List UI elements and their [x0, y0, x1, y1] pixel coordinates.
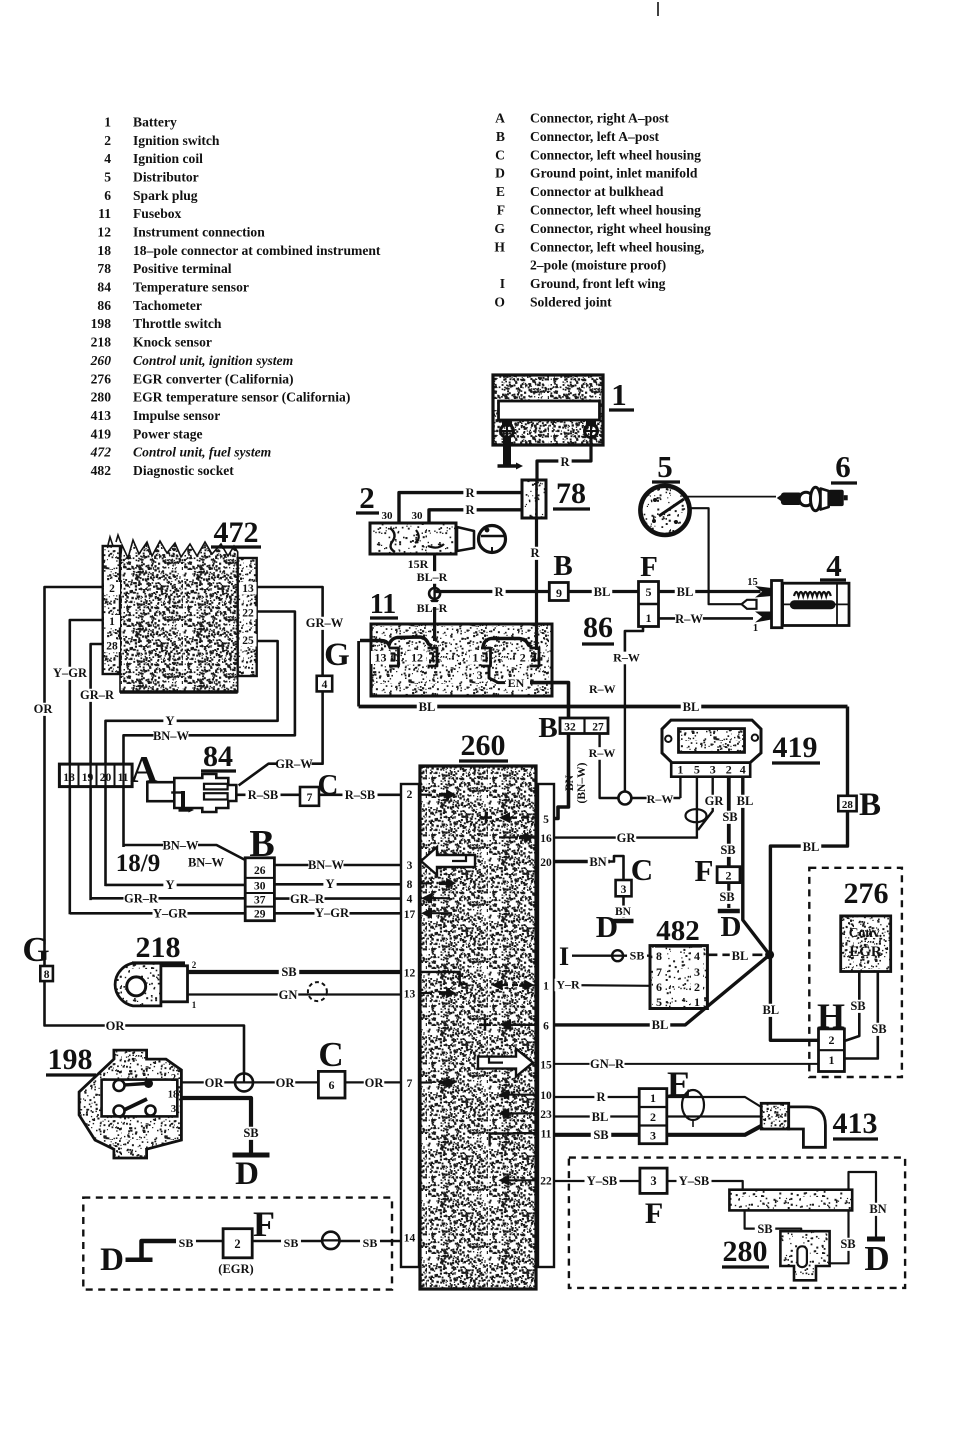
wire EN to connector B32: [530, 683, 569, 718]
label 15R: [405, 558, 432, 571]
svg-text:218: 218: [91, 335, 112, 350]
svg-text:GR: GR: [617, 831, 637, 845]
svg-text:3: 3: [694, 965, 700, 979]
wire BL to connector B28: [846, 707, 849, 796]
svg-text:78: 78: [97, 261, 111, 276]
svg-text:D: D: [721, 911, 742, 943]
260 double arrow pin 1: [492, 980, 503, 991]
svg-text:F: F: [695, 853, 714, 888]
svg-text:B: B: [859, 787, 881, 823]
wire BN below C3: [622, 896, 625, 918]
wire distributor to coil wire: [689, 508, 709, 589]
svg-text:BL: BL: [677, 585, 694, 599]
260 plus glyph pin 6: [479, 1024, 491, 1027]
svg-text:Y–SB: Y–SB: [679, 1174, 710, 1188]
svg-text:7: 7: [307, 792, 313, 804]
label SB: [241, 1127, 262, 1140]
svg-text:I: I: [559, 942, 569, 971]
label BL: [735, 795, 756, 808]
svg-text:D: D: [100, 1242, 124, 1278]
svg-text:SB: SB: [281, 965, 296, 979]
wire GR-W from 472 pin 13 to connector G4: [257, 587, 323, 676]
472 pin 13: [240, 582, 257, 595]
260 arrowhead pin 23: [498, 1108, 509, 1119]
260 big arrow pin 3: [421, 847, 475, 875]
wire R battery to positive terminal 78: [537, 438, 591, 480]
wire SB 260 pin 11 to E3: [554, 1133, 639, 1137]
svg-text:12: 12: [411, 651, 423, 665]
diagnostic socket 482: [650, 946, 707, 1009]
260 arrow glyph pin 16: [499, 836, 518, 838]
wire Y-SB 260 pin 22 to F3: [554, 1180, 640, 1182]
wire BL main: [359, 705, 848, 709]
wire GN 218 to 260 pin 13: [188, 993, 402, 995]
svg-text:BL–R: BL–R: [417, 601, 448, 615]
svg-text:1: 1: [677, 763, 683, 777]
svg-text:GN: GN: [279, 988, 298, 1002]
label BL: [592, 586, 613, 599]
svg-text:78: 78: [556, 477, 586, 510]
svg-text:SB: SB: [243, 1126, 258, 1140]
connector F 2 EGR: [223, 1229, 252, 1258]
svg-text:9: 9: [556, 586, 562, 600]
wire SB 276 right: [844, 972, 877, 1059]
svg-text:D: D: [596, 909, 618, 944]
472 left pin strip: [103, 546, 120, 674]
label GR-W: [307, 617, 342, 630]
wire OR 198 pin 2: [181, 1081, 235, 1083]
label SB: [281, 1237, 301, 1250]
svg-text:R–W: R–W: [647, 792, 674, 806]
label BN-W: [163, 839, 198, 852]
svg-text:BL: BL: [419, 700, 436, 714]
260 arrowhead pin 10: [498, 1089, 509, 1100]
label SB: [176, 1237, 196, 1250]
svg-text:4: 4: [694, 949, 700, 963]
label R: [528, 547, 541, 560]
svg-text:SB: SB: [719, 890, 734, 904]
svg-text:BN–W: BN–W: [308, 858, 345, 872]
EGR converter 276 dashed box: [809, 868, 902, 1077]
throttle switch 198 body: [79, 1050, 181, 1158]
ground I at battery: [503, 438, 511, 465]
svg-text:413: 413: [833, 1107, 878, 1140]
label OR: [33, 703, 54, 716]
svg-text:SB: SB: [720, 843, 735, 857]
260 plus glyph pin 5: [480, 816, 492, 819]
svg-text:3: 3: [407, 860, 413, 872]
svg-text:Connector, right wheel housing: Connector, right wheel housing: [530, 221, 711, 236]
svg-text:27: 27: [592, 722, 604, 734]
wire B32 to control unit 260 pin 5: [554, 734, 569, 819]
soldered joint R-W: [618, 792, 631, 805]
260 step glyph pin 12: [420, 972, 468, 984]
svg-text:15: 15: [540, 1059, 552, 1071]
472 pin 22: [240, 607, 257, 620]
wire BL B28 down to H: [770, 811, 847, 1040]
svg-text:13: 13: [404, 989, 416, 1001]
svg-text:260: 260: [461, 729, 506, 762]
label R-SB: [343, 789, 378, 802]
svg-text:BN–W: BN–W: [188, 856, 225, 870]
svg-text:Y: Y: [325, 877, 334, 891]
260 left pin strip: [401, 784, 419, 1267]
svg-text:3: 3: [650, 1129, 656, 1143]
connector B 28: [838, 796, 856, 811]
svg-text:86: 86: [97, 298, 111, 313]
svg-text:5: 5: [104, 170, 111, 185]
label OR: [204, 1077, 225, 1090]
svg-text:SB: SB: [363, 1236, 378, 1250]
svg-text:2: 2: [407, 789, 413, 801]
fuse 1: [470, 651, 481, 664]
ignition switch 2: [370, 523, 456, 554]
label GR-W: [277, 758, 312, 771]
svg-text:EGR converter (California): EGR converter (California): [133, 371, 294, 387]
svg-text:3: 3: [171, 1104, 176, 1115]
260 arrow glyph pin 13: [420, 992, 432, 994]
label BL-R: [415, 571, 449, 584]
label SB: [717, 891, 738, 904]
svg-text:198: 198: [48, 1043, 93, 1076]
label BL-R: [415, 602, 449, 615]
label BL: [417, 701, 438, 714]
260 arrow glyph pin 5: [499, 812, 510, 823]
svg-text:D: D: [235, 1156, 259, 1192]
wire BL junction to 482 pin 4: [707, 953, 769, 956]
label BN: [868, 1203, 889, 1216]
svg-text:SB: SB: [850, 999, 865, 1013]
label SB: [848, 1000, 869, 1013]
svg-text:4: 4: [104, 151, 111, 166]
ground D below C3: [614, 919, 634, 924]
svg-text:BN–W: BN–W: [162, 839, 199, 853]
connector B 9: [549, 583, 568, 601]
svg-text:Fusebox: Fusebox: [133, 206, 182, 221]
svg-text:419: 419: [773, 731, 818, 764]
wire R-SB connector C7 to 260 pin 2: [319, 793, 401, 796]
connector C 3: [616, 880, 632, 896]
label Y: [323, 878, 336, 891]
svg-text:OR: OR: [276, 1076, 296, 1090]
svg-text:R–W: R–W: [675, 612, 703, 626]
label BL: [681, 701, 702, 714]
fuse 13: [371, 651, 390, 664]
svg-text:G: G: [494, 221, 505, 236]
svg-text:OR: OR: [106, 1019, 126, 1033]
knock sensor 218: [115, 963, 161, 1006]
svg-text:2: 2: [359, 480, 375, 515]
wire GR to 260 pin 16: [554, 836, 697, 838]
connector H 2 1: [819, 1029, 845, 1072]
wire 419 pin 1 R-W: [679, 777, 681, 798]
wire OR connector C6 to 260 pin 7: [345, 1081, 401, 1083]
wire R joint to connector B9: [435, 590, 549, 593]
svg-text:Power stage: Power stage: [133, 426, 203, 441]
svg-text:GR–R: GR–R: [124, 892, 159, 906]
control unit 260 body: [420, 766, 536, 1289]
svg-text:Battery: Battery: [133, 115, 177, 130]
label SB: [591, 1129, 612, 1142]
svg-text:5: 5: [657, 449, 673, 484]
label SB: [718, 844, 739, 857]
label SB: [720, 811, 741, 824]
label R: [463, 504, 476, 517]
label Y: [163, 879, 176, 892]
ground D below 198: [233, 1153, 270, 1158]
connector E 1 2 3: [639, 1089, 667, 1144]
svg-text:F: F: [497, 203, 505, 218]
svg-text:32: 32: [564, 722, 576, 734]
svg-text:1: 1: [646, 611, 652, 625]
svg-text:2: 2: [171, 1073, 176, 1084]
wire GN-R 260 pin 15 to H1: [554, 1063, 819, 1065]
wire SB ground I to 482 pin 8: [572, 955, 650, 957]
svg-text:Temperature sensor: Temperature sensor: [133, 280, 249, 295]
label R: [558, 456, 571, 469]
svg-text:R: R: [465, 503, 475, 517]
svg-text:1: 1: [543, 981, 549, 993]
svg-text:Y–GR: Y–GR: [53, 666, 88, 680]
svg-text:472: 472: [90, 445, 112, 460]
svg-text:23: 23: [540, 1109, 552, 1121]
wire 15R from ignition switch: [433, 554, 436, 588]
svg-text:Control unit, fuel system: Control unit, fuel system: [133, 445, 271, 460]
temperature sensor 84: [147, 782, 174, 801]
soldered joint on SB: [612, 950, 623, 961]
wire BN-W B26 to 260 pin 3: [274, 864, 401, 867]
label SB: [360, 1237, 380, 1250]
svg-text:12: 12: [97, 225, 111, 240]
wire BL connector F to ignition coil 15: [659, 590, 761, 593]
ground D 280: [867, 1237, 885, 1242]
connector F 2: [717, 867, 740, 883]
svg-text:2: 2: [520, 651, 526, 665]
svg-text:Y: Y: [165, 714, 174, 728]
svg-text:84: 84: [203, 740, 233, 773]
svg-text:R: R: [465, 486, 475, 500]
fusebox 11: [371, 624, 552, 696]
svg-text:Instrument connection: Instrument connection: [133, 225, 265, 240]
svg-text:R–SB: R–SB: [248, 788, 279, 802]
svg-text:Y–R: Y–R: [556, 978, 580, 992]
svg-text:16: 16: [540, 833, 552, 845]
fusebox bus wire right group: [483, 639, 532, 648]
scan tick mark top: [657, 2, 659, 16]
wire BN-W to B26: [124, 845, 246, 860]
wire R-W joint to power stage pin 1: [631, 797, 680, 799]
wire BL 260 pin 6 to junction: [554, 955, 770, 1025]
svg-text:2: 2: [726, 869, 732, 883]
label BN-W: [154, 730, 189, 743]
svg-text:11: 11: [98, 206, 111, 221]
svg-text:1: 1: [829, 1053, 835, 1067]
svg-text:R–SB: R–SB: [345, 788, 376, 802]
svg-text:R: R: [494, 585, 504, 599]
svg-text:Connector at bulkhead: Connector at bulkhead: [530, 184, 664, 199]
svg-text:260: 260: [90, 353, 112, 368]
svg-text:Conv.: Conv.: [849, 925, 882, 940]
svg-text:6: 6: [656, 980, 662, 994]
svg-text:B: B: [553, 550, 572, 582]
svg-text:7: 7: [656, 965, 662, 979]
svg-text:SB: SB: [840, 1237, 855, 1251]
label BL: [675, 586, 696, 599]
svg-text:28: 28: [106, 641, 118, 653]
svg-text:BL: BL: [737, 794, 754, 808]
svg-text:Soldered joint: Soldered joint: [530, 295, 612, 310]
wire BL-R to fusebox: [433, 607, 436, 641]
label R-W: [589, 747, 616, 760]
472 right pin strip: [238, 558, 257, 676]
svg-text:B: B: [538, 712, 557, 744]
spark plug 6: [777, 495, 783, 501]
198 contact pin 3: [114, 1106, 125, 1117]
label R-W: [647, 793, 674, 806]
18-pole connector at combined instrument: [59, 764, 132, 787]
wire SB to F2 EGR: [176, 1240, 223, 1243]
svg-text:1: 1: [472, 651, 478, 665]
soldered joint EGR SB: [322, 1232, 339, 1249]
wire SB 218 to 260 pin 12: [188, 970, 402, 974]
svg-text:Ignition coil: Ignition coil: [133, 151, 203, 166]
label BL: [650, 1019, 671, 1032]
svg-text:2: 2: [650, 1110, 656, 1124]
svg-text:D: D: [864, 1239, 889, 1278]
svg-text:1: 1: [109, 616, 115, 628]
wire OR joint to connector C6: [253, 1081, 318, 1083]
svg-text:Knock sensor: Knock sensor: [133, 335, 212, 350]
svg-text:6: 6: [835, 449, 851, 484]
power stage 419: [662, 720, 761, 763]
impulse sensor 413 connector: [761, 1103, 789, 1129]
svg-text:Throttle switch: Throttle switch: [133, 316, 222, 331]
wire BN 260 pin 20: [554, 860, 610, 864]
svg-text:BL: BL: [592, 1110, 609, 1124]
svg-text:6: 6: [329, 1078, 335, 1092]
svg-text:BL: BL: [762, 1003, 779, 1017]
wire SB 276 left: [844, 972, 859, 1042]
label SB: [838, 1238, 859, 1251]
svg-text:Ignition switch: Ignition switch: [133, 133, 220, 148]
label Y-SB: [585, 1175, 620, 1188]
ground D below F2: [718, 909, 740, 914]
419 pin row: [671, 763, 750, 777]
wire BL connector 9 to connector F: [568, 590, 638, 593]
svg-text:OR: OR: [34, 702, 54, 716]
svg-text:2: 2: [829, 1033, 835, 1047]
svg-text:F: F: [645, 1197, 663, 1230]
472 pin 2: [104, 582, 120, 595]
wire R from 78 down to fusebox fuse 2: [535, 518, 538, 650]
wire SB E3 to impulse sensor: [667, 1126, 761, 1135]
control unit 472 body: [120, 540, 238, 692]
svg-text:GR–R: GR–R: [290, 892, 325, 906]
svg-text:Y–GR: Y–GR: [315, 906, 350, 920]
label R: [492, 586, 505, 599]
svg-text:SB: SB: [630, 949, 645, 963]
svg-text:20: 20: [540, 857, 552, 869]
svg-text:Connector, left wheel housing,: Connector, left wheel housing,: [530, 239, 704, 254]
svg-text:18–pole connector at combined: 18–pole connector at combined instrument: [133, 243, 381, 258]
impulse sensor 413 boot: [789, 1107, 826, 1147]
svg-text:2–pole (moisture proof): 2–pole (moisture proof): [530, 258, 666, 274]
svg-text:5: 5: [656, 995, 662, 1009]
svg-text:3: 3: [710, 763, 716, 777]
260 arrowhead pin 22: [498, 1175, 509, 1186]
svg-text:SB: SB: [722, 810, 737, 824]
label R-W: [675, 613, 703, 626]
svg-text:25: 25: [242, 635, 254, 647]
svg-text:Control unit, ignition system: Control unit, ignition system: [133, 353, 293, 368]
svg-text:R: R: [560, 455, 570, 469]
connector G 4: [317, 676, 333, 692]
svg-text:15R: 15R: [408, 557, 429, 571]
svg-text:1: 1: [611, 377, 627, 412]
472 pin 28: [104, 640, 120, 653]
svg-text:OR: OR: [365, 1076, 385, 1090]
svg-text:11: 11: [541, 1129, 552, 1141]
EGR temperature sensor 280 body: [780, 1231, 829, 1280]
label OR: [364, 1077, 385, 1090]
svg-text:EGR temperature sensor (Califo: EGR temperature sensor (California): [133, 390, 350, 406]
loop symbol on pin 5 wire: [686, 809, 707, 822]
label Y-GR: [153, 907, 188, 920]
svg-text:4: 4: [322, 679, 328, 691]
instrument connection 12 symbol: [457, 527, 474, 551]
svg-text:17: 17: [404, 909, 416, 921]
label GR: [704, 795, 725, 808]
svg-text:SB: SB: [179, 1236, 194, 1250]
connector F 5 1: [639, 582, 659, 627]
label BL: [761, 1004, 782, 1017]
ignition coil 4: [772, 581, 783, 628]
wire Y-GR from 472 pin 1: [70, 620, 103, 914]
soldered joint on 15R wire: [429, 588, 440, 599]
svg-text:BL: BL: [732, 949, 749, 963]
svg-text:BN: BN: [869, 1202, 886, 1216]
wire SB sensor 280 right: [830, 1210, 849, 1263]
wire Y-R 260 pin 1 to 482 pin 2: [554, 984, 650, 987]
svg-text:C: C: [318, 769, 339, 801]
dashed circle on GN wire: [308, 982, 327, 1001]
svg-text:F: F: [640, 551, 658, 583]
svg-text:1: 1: [650, 1091, 656, 1105]
svg-text:5: 5: [543, 814, 549, 826]
svg-text:Connector, left wheel housing: Connector, left wheel housing: [530, 147, 701, 162]
svg-text:C: C: [318, 1035, 343, 1074]
svg-text:4: 4: [826, 548, 842, 583]
svg-text:(EGR): (EGR): [218, 1262, 253, 1276]
label GR-R: [290, 893, 325, 906]
wire SB 198 pin 18 to ground: [181, 1098, 251, 1153]
svg-text:G: G: [324, 637, 350, 673]
svg-text:8: 8: [407, 879, 413, 891]
svg-text:12: 12: [404, 967, 416, 979]
wire SB joint to 260 pin 14: [340, 1240, 402, 1243]
wire Y to B30: [106, 884, 246, 887]
wire R-W connector F1 to ignition coil 1: [659, 617, 754, 620]
svg-text:R–W: R–W: [589, 746, 616, 760]
ignition coil 4 centre terminal: [709, 590, 741, 605]
svg-text:GR–R: GR–R: [80, 688, 115, 702]
wire 419 pin 4 BL: [743, 777, 770, 955]
wire R-SB sensor 84 to connector C7: [236, 793, 300, 796]
svg-text:2: 2: [694, 980, 700, 994]
svg-text:1: 1: [192, 1000, 197, 1010]
260 arrow glyph pin 8: [420, 882, 432, 884]
label Y: [163, 715, 176, 728]
